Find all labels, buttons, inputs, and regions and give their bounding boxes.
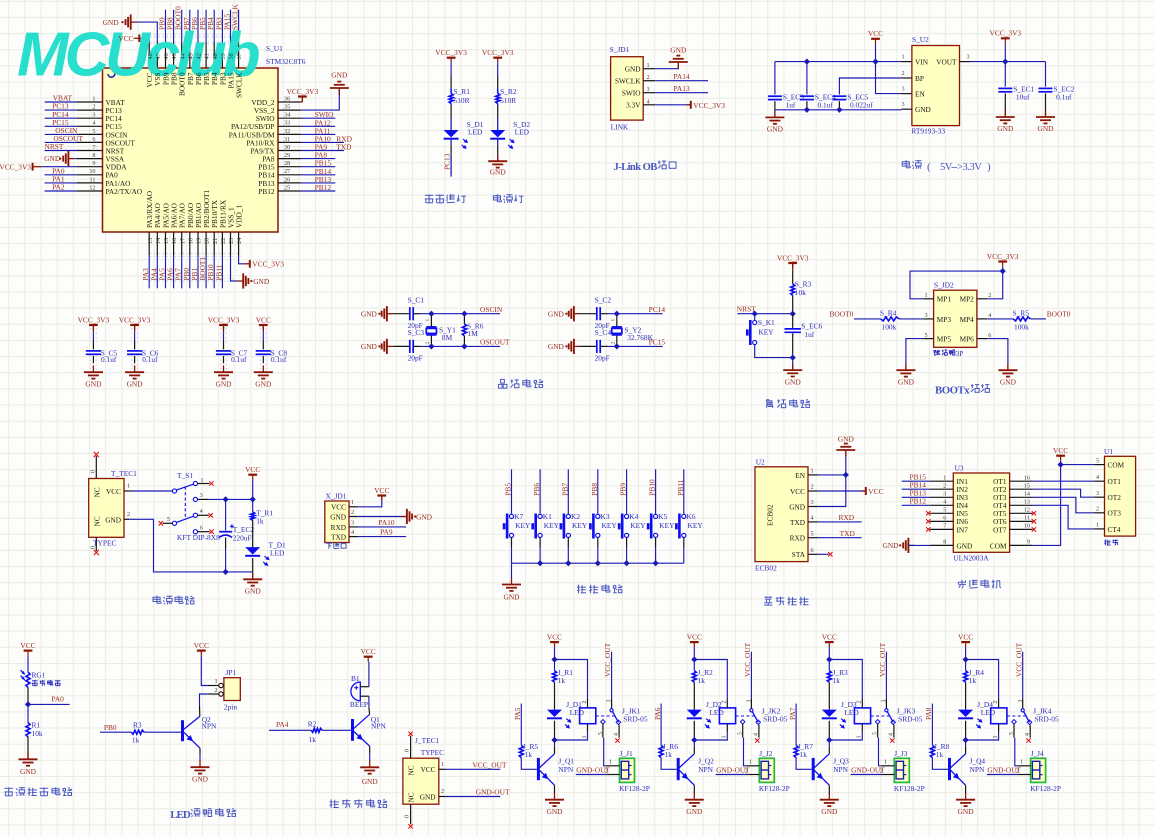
svg-text:2: 2 (611, 342, 617, 345)
svg-text:PA8: PA8 (924, 707, 933, 720)
svg-text:BEEP: BEEP (350, 700, 368, 709)
resistor R3 1k (131, 730, 144, 734)
svg-text:0.1uf: 0.1uf (101, 355, 117, 364)
junction VCC/J_JK4 (962, 656, 968, 662)
svg-text:LED: LED (515, 128, 530, 137)
wire net PA2 (45, 190, 77, 192)
mcu pin 41 PB5 (205, 42, 207, 68)
driver U3 pin 1 IN1 (930, 480, 954, 482)
mcu pin 10 PA0 (77, 174, 103, 176)
junction VOUT/VCC_3V3 (1002, 58, 1008, 64)
wire S_R1 top (450, 63, 452, 76)
pushbutton K5 KEY (654, 514, 658, 518)
resistor R2 1k (311, 728, 322, 732)
ground keys (511, 578, 513, 585)
wire S_JD2 pin1 loop to VCC_3V3 (910, 271, 1003, 299)
wire net PB8 (173, 10, 175, 42)
svg-text:10uf: 10uf (1016, 93, 1030, 102)
mcu pin 31 PA10/RX (278, 141, 301, 143)
junction J_D3/coil (826, 737, 832, 743)
jumper S_JD2 body (934, 290, 977, 347)
wire X_JD1 pin2 to ground (358, 516, 406, 518)
svg-text:VCC_3V3: VCC_3V3 (777, 253, 809, 262)
terminal J_J4 body KF128-2P (1031, 758, 1046, 782)
svg-text:NPN: NPN (371, 722, 386, 731)
mcu pin 20 PB2/BOOT1 (205, 232, 207, 256)
transistor Q1 NPN (351, 719, 354, 741)
wire net VCC_OUT at J_JK1 (611, 652, 613, 699)
wire VCC to JP1 pin1 (201, 656, 208, 686)
relay J_JK4 pin4 (1029, 725, 1031, 738)
svg-text:1: 1 (943, 474, 946, 481)
svg-text:GND: GND (103, 18, 120, 27)
mcu pin 26 PB13 (278, 182, 301, 184)
svg-text:GND: GND (20, 767, 37, 776)
wire net PB14 (301, 174, 336, 176)
svg-text:GND: GND (767, 125, 784, 134)
svg-text:PA7: PA7 (788, 707, 797, 720)
svg-text:KEY: KEY (544, 521, 560, 530)
relay J_JK1 switch (611, 698, 613, 708)
value xiazaikou (326, 542, 332, 544)
led J_D4 (958, 710, 973, 717)
wire net PA6 (660, 704, 662, 746)
svg-text:VCC_3V3: VCC_3V3 (252, 260, 284, 269)
svg-text:3: 3 (1018, 700, 1024, 703)
svg-text:PC13: PC13 (443, 153, 452, 170)
title dianyuandeng (496, 194, 498, 202)
svg-text:GND: GND (253, 277, 270, 286)
wire U2 VCC (818, 490, 865, 492)
ground above S_JD1 (677, 62, 679, 69)
wire net PC14 (45, 117, 77, 119)
wire VIN rail (775, 61, 902, 63)
svg-text:VCC_3V3: VCC_3V3 (208, 315, 240, 324)
power port VCC_3V3 below mcu pin24 (244, 263, 249, 265)
junction row3/T_EC2 (222, 496, 228, 502)
junction NRST/S_EC6 (790, 311, 796, 317)
svg-text:S_JD1: S_JD1 (610, 45, 630, 54)
relay J_JK4 coil (991, 708, 1007, 724)
svg-text:PB8: PB8 (590, 483, 599, 496)
wire mcu pin48 to VCC (140, 38, 149, 42)
no connect U3 IN5 (926, 511, 930, 515)
svg-text:VCC_3V3: VCC_3V3 (482, 48, 514, 57)
svg-text:JP1: JP1 (226, 668, 237, 677)
wire S_R3 to NRST node (792, 295, 794, 313)
wire net PB5 (511, 469, 513, 514)
driver U3 pin 6 IN6 (930, 520, 954, 522)
wire U2 GND pin up (818, 450, 846, 506)
wire VCC_3V3 to pin2 (987, 267, 1002, 299)
svg-text:GND: GND (1000, 377, 1017, 386)
pushbutton K6 KEY (682, 514, 686, 518)
relay J_JK3 pin4 (893, 725, 895, 738)
svg-text:41: 41 (204, 53, 211, 59)
svg-text:2: 2 (441, 788, 444, 795)
svg-text:ECB02: ECB02 (755, 564, 777, 573)
svg-text:SWCLK: SWCLK (235, 72, 244, 98)
wire coil bottom to node (555, 733, 588, 740)
svg-text:KEY: KEY (572, 521, 588, 530)
wire T_TEC1 pin1 to switch (132, 490, 172, 492)
svg-text:1: 1 (127, 483, 130, 490)
svg-text:2: 2 (722, 701, 728, 704)
svg-text:GND: GND (490, 168, 507, 177)
wire K5 to bus (655, 538, 657, 548)
connector S_JD1 pin 1 GND (643, 68, 655, 70)
svg-text:SRD-05: SRD-05 (623, 714, 648, 723)
wire net PA0 (28, 703, 70, 705)
svg-text:PB12: PB12 (910, 497, 927, 506)
wire J_D3 to collector node (828, 721, 830, 740)
wire S_C8 bottom (262, 356, 264, 363)
junction gnd/S_EC4 (804, 107, 810, 113)
svg-text:NC: NC (407, 765, 416, 775)
relay J_JK4 dashed link (1007, 715, 1026, 717)
wire mcu pin47 to GND (136, 22, 157, 42)
svg-text:2: 2 (902, 70, 905, 77)
svg-text:MP1: MP1 (937, 295, 952, 304)
mcu pin 33 PA12/USB/DP (278, 125, 301, 127)
svg-text:1: 1 (902, 54, 905, 61)
ground below J_Q2 (693, 793, 695, 800)
svg-text:16: 16 (1024, 474, 1030, 481)
svg-text:3.3V: 3.3V (626, 101, 641, 110)
svg-text:KEY: KEY (659, 521, 675, 530)
wire J_R5 to J_Q1 base (521, 758, 537, 770)
svg-text:SRD-05: SRD-05 (1034, 714, 1059, 723)
wire VCC to U1 COM and U3 COM (1032, 461, 1061, 546)
svg-text:PA2: PA2 (52, 183, 65, 192)
svg-text:0.1uf: 0.1uf (271, 355, 287, 364)
wire net VCC_OUT (446, 768, 501, 770)
svg-text:1: 1 (611, 319, 617, 322)
wire net PA8 (301, 158, 336, 160)
ground right of mcu (338, 88, 340, 95)
svg-text:GND: GND (670, 46, 687, 55)
wire net PB12 (301, 190, 336, 192)
regulator S_U2 pin BP (902, 77, 912, 79)
junction key bus (565, 560, 571, 566)
svg-text:VOUT: VOUT (936, 58, 957, 67)
resistor J_R3 1k (827, 671, 831, 683)
relay J_JK2 pin5 to J_J2 (742, 723, 744, 737)
wire node to J_R1 (554, 660, 556, 671)
svg-text:3: 3 (200, 492, 203, 499)
svg-text:LED: LED (270, 549, 285, 558)
resistor S_R4 100k (881, 317, 899, 321)
svg-text:1k: 1k (936, 750, 944, 759)
relay J_JK1 pin4 (618, 725, 620, 738)
no connect U3 OT5 (1032, 511, 1036, 515)
wire net PB12 (902, 504, 930, 506)
junction J_D4/coil (962, 737, 968, 743)
svg-text:GND: GND (997, 124, 1014, 133)
wire net VCC_OUT at J_JK3 (885, 652, 887, 699)
svg-text:OT7: OT7 (993, 525, 1007, 534)
svg-text:GND: GND (958, 807, 975, 816)
svg-text:KEY: KEY (758, 327, 774, 336)
wire S_R4 to BOOT0 (854, 318, 881, 320)
wire net PA4 (156, 256, 158, 288)
svg-text:36: 36 (284, 95, 290, 102)
svg-text:VCC_3V3: VCC_3V3 (989, 29, 1021, 38)
mcu pin 4 PC15 (77, 125, 103, 127)
wire net PB0 (100, 731, 131, 733)
wire J_R3 to J_D3 (828, 682, 830, 709)
svg-text:VCC: VCC (256, 315, 271, 324)
svg-text:10: 10 (1024, 523, 1030, 530)
driver U3 pin 9 COM (1010, 544, 1032, 546)
wire switch row3 to VCC column (209, 498, 253, 500)
junction VCC/J_JK2 (691, 656, 697, 662)
svg-text:GND: GND (85, 379, 102, 388)
svg-text:PA6: PA6 (653, 707, 662, 720)
ground below S_EC3 (774, 111, 776, 118)
wire RG1 to PA0 node (27, 688, 29, 705)
driver U3 pin 10 OT7 (1010, 528, 1033, 530)
resistor J_R7 1k (794, 745, 798, 758)
svg-text:S_C2: S_C2 (595, 296, 612, 305)
mcu pin 21 PB10/TX (213, 232, 215, 256)
svg-text:2: 2 (943, 482, 946, 489)
svg-text:39: 39 (220, 53, 227, 59)
svg-text:1k: 1k (525, 750, 533, 759)
power port VCC above X_JD1 (377, 494, 386, 496)
junction key bus (537, 560, 543, 566)
svg-text:1k: 1k (309, 735, 317, 744)
svg-text:VCC_3V3: VCC_3V3 (0, 162, 31, 171)
svg-text:510R: 510R (454, 96, 470, 105)
svg-text:KF128-2P: KF128-2P (619, 784, 650, 793)
mcu pin 25 PB12 (278, 190, 301, 192)
mcu pin 43 PB7 (189, 42, 191, 68)
wire S_C6 bottom (134, 356, 136, 363)
svg-text:GND: GND (44, 154, 61, 163)
svg-text:COM: COM (990, 541, 1007, 550)
svg-text:0.1uf: 0.1uf (1056, 93, 1072, 102)
power port VCC_3V3 above S_R3 (788, 262, 797, 264)
wire S_D2 to ground (497, 140, 499, 146)
svg-text:45: 45 (171, 53, 178, 59)
svg-text:K7: K7 (514, 512, 523, 521)
svg-text:TXD: TXD (336, 143, 352, 152)
svg-text:GND-OUT: GND-OUT (987, 765, 1021, 774)
junction pin1 loop (1000, 268, 1006, 274)
junction key bus (623, 560, 629, 566)
svg-text:J_J2: J_J2 (759, 749, 772, 758)
svg-text:GND: GND (915, 105, 931, 114)
svg-text:220uF: 220uF (233, 533, 252, 542)
wire net SWCLK (238, 10, 240, 42)
svg-text:GND: GND (361, 342, 378, 351)
wire net GND-OUT (446, 796, 501, 798)
driver U3 pin 11 OT6 (1010, 520, 1033, 522)
transistor J_Q4 NPN (948, 758, 951, 780)
svg-text:MP5: MP5 (937, 335, 952, 344)
svg-text:LED: LED (570, 708, 585, 717)
wire K2 to bus (567, 538, 569, 548)
connector U1 body (1105, 456, 1136, 536)
svg-text:COM: COM (1108, 461, 1125, 470)
wire S_R2 top (497, 63, 499, 76)
wire VCC to VIN and EN (876, 44, 902, 94)
wire node to J_Q3 collector (828, 740, 830, 746)
svg-text:S_U1: S_U1 (266, 44, 283, 53)
terminal J_J1 body KF128-2P (620, 758, 635, 782)
capacitor S_EC5 0.022uf (832, 95, 846, 97)
svg-text:PA13: PA13 (674, 84, 690, 93)
wire node to relay coil top (694, 660, 727, 699)
ground below S_EC2 (1045, 110, 1047, 117)
svg-text:100k: 100k (1014, 323, 1029, 332)
svg-text:VCC: VCC (868, 29, 883, 38)
ground power circuit (252, 573, 254, 580)
wire net PB9 (165, 10, 167, 42)
svg-text:1k: 1k (665, 750, 673, 759)
ground below J_Q1 (554, 793, 556, 800)
wire pin5 to ground (906, 339, 923, 370)
wire J_Q2 emitter to ground (693, 785, 695, 793)
mcu pin 37 SWCLK (238, 42, 240, 68)
junction J_D2/coil (691, 737, 697, 743)
capacitor S_C7 0.1uf (216, 350, 231, 352)
junction OSCOUT/S_R6 (461, 343, 467, 349)
svg-text:12: 12 (1024, 507, 1030, 514)
wire S_R5 to BOOT0 (1030, 318, 1046, 320)
svg-text:1: 1 (722, 736, 728, 739)
wire net TXD (818, 537, 861, 539)
svg-text:BP: BP (915, 74, 924, 83)
junction row3/T_R1 (250, 496, 256, 502)
relay J_JK2 pin4 (758, 725, 760, 738)
svg-text:): ) (987, 161, 991, 173)
terminal J_J2 body KF128-2P (759, 758, 774, 782)
relay J_JK1 pin5 to J_J1 (602, 723, 604, 737)
wire net PB13 (301, 182, 336, 184)
capacitor S_C1 20pF (409, 307, 411, 320)
svg-text:15: 15 (163, 238, 170, 244)
svg-text:VCC_3V3: VCC_3V3 (287, 87, 319, 96)
svg-text:KEY: KEY (602, 521, 618, 530)
svg-text:KFT DIP-8X8: KFT DIP-8X8 (177, 533, 220, 542)
svg-text:GND-OUT: GND-OUT (716, 765, 750, 774)
svg-text:GND: GND (625, 65, 641, 74)
mcu pin 5 OSCIN (77, 133, 103, 135)
value tiaoxianmao 3P (934, 350, 936, 352)
wire net PA6 (173, 256, 175, 288)
title fengmingqidianlu (330, 799, 332, 808)
wire gnd to S_C1 (393, 313, 410, 315)
wire gnd to S_C4 (580, 345, 597, 347)
svg-text:8M: 8M (442, 333, 453, 342)
junction PC14/crystal (614, 311, 620, 317)
relay J_JK3 pin5 to J_J3 (877, 723, 879, 737)
ground top of mcu (130, 15, 132, 30)
connector X_JD1 pin 3 RXD (349, 526, 358, 528)
junction S_EC6/gnd (790, 354, 796, 360)
svg-text:GND: GND (785, 377, 802, 386)
no connect J_JK3 pin4 (890, 738, 894, 742)
connector U1 pin 2 OT3 (1094, 512, 1104, 514)
power port VCC above J_R4 (961, 641, 970, 643)
svg-text:2: 2 (92, 104, 95, 111)
svg-text:R2: R2 (308, 719, 317, 728)
wire net PA12 (301, 125, 336, 127)
crystal S_Y1 8M (430, 314, 432, 327)
svg-text:1: 1 (1020, 758, 1023, 765)
junction OSCOUT/crystal (428, 343, 434, 349)
capacitor T_EC2 220uF (225, 499, 227, 530)
svg-text:VCC: VCC (245, 465, 260, 474)
wire gnd to S_C3 (393, 345, 410, 347)
resistor S_R2 510R (496, 93, 500, 103)
wire key bottom (755, 345, 793, 358)
svg-text:RXD: RXD (331, 523, 346, 532)
svg-text:3: 3 (902, 86, 905, 93)
wire VCC to RG1 (27, 656, 29, 672)
wire J_R4 to J_D4 (965, 682, 967, 709)
power port VCC above stepper (1056, 455, 1065, 457)
junction EN/GND (843, 472, 849, 478)
svg-text:18: 18 (187, 238, 194, 244)
svg-text:J-Link OB: J-Link OB (614, 162, 658, 173)
pushbutton K1 KEY (538, 514, 542, 518)
no connect U3 IN6 (926, 519, 930, 524)
wire S_C7 top (223, 332, 225, 340)
svg-text:100k: 100k (882, 323, 897, 332)
wire net PA13 (655, 92, 708, 94)
svg-text:TXD: TXD (840, 529, 856, 538)
svg-text:10k: 10k (795, 288, 806, 297)
svg-text:3: 3 (811, 499, 814, 506)
wire X_JD1 pin1 to VCC (358, 496, 382, 507)
svg-text:5: 5 (92, 128, 95, 135)
svg-text:S_K1: S_K1 (758, 318, 775, 327)
svg-text:VCC: VCC (822, 633, 837, 642)
wire net PB6 (197, 10, 199, 42)
module U2 body ECB02 (755, 467, 808, 562)
wire node to R1 (27, 704, 29, 722)
svg-text:0.1uf: 0.1uf (231, 355, 247, 364)
power port VCC top of mcu (138, 35, 140, 43)
mcu pin 34 SWIO (278, 117, 301, 119)
connector JP1 pin2 (208, 693, 219, 695)
wire J_Q3 emitter to ground (828, 785, 830, 793)
svg-text:MP4: MP4 (960, 315, 975, 324)
mcu pin 19 PB1/AO (197, 232, 199, 256)
resistor S_R5 100k (1013, 317, 1030, 321)
wire BP to S_EC5 (839, 78, 901, 95)
svg-text:3: 3 (607, 700, 613, 703)
mcu pin 6 OSCOUT (77, 141, 103, 143)
wire U2 STA stub (818, 553, 828, 555)
led J_D3 (822, 710, 837, 717)
terminal J_J1 pin2 (606, 774, 619, 776)
svg-text:1k: 1k (256, 516, 264, 525)
wire coil bottom to node (694, 733, 727, 740)
svg-text:IN7: IN7 (957, 525, 969, 534)
mcu pin 18 PB0/AO (189, 232, 191, 256)
svg-text:NC: NC (93, 487, 102, 497)
svg-text:PB7: PB7 (560, 483, 569, 496)
transistor J_Q3 NPN (812, 758, 815, 780)
resistor J_R1 1k (553, 671, 557, 683)
wire net PB7 (189, 10, 191, 42)
svg-text:5: 5 (598, 732, 604, 735)
junction VCC/COM (1057, 461, 1063, 467)
